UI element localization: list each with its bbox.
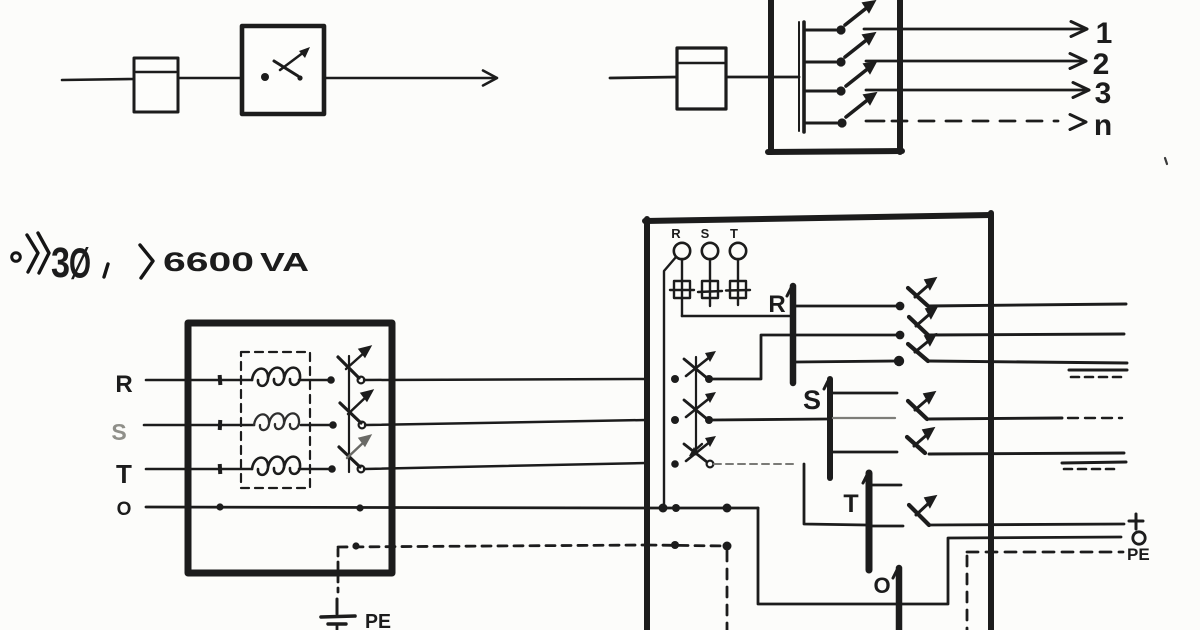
switch blade 2 — [845, 32, 877, 57]
wire O panel — [647, 504, 1121, 605]
distribution box — [768, 0, 902, 152]
wire S input — [144, 424, 188, 427]
wire feeder-2 input — [610, 77, 677, 78]
terminal R — [218, 375, 223, 385]
wire output 3 — [866, 83, 1089, 98]
lamp fuse S — [698, 281, 722, 306]
wire S2 out — [929, 453, 1124, 454]
svg-text:T: T — [116, 459, 132, 489]
branch stub n — [806, 118, 847, 127]
wire coil3 to contact — [299, 468, 330, 471]
svg-text:3: 3 — [1095, 77, 1112, 110]
terminal T — [218, 464, 223, 474]
switch R1 — [908, 277, 937, 306]
wire panel T to busbar — [804, 464, 866, 525]
wire panel S to busbar — [711, 419, 827, 420]
wire T1 out — [929, 524, 1124, 525]
svg-text:3: 3 — [51, 239, 70, 287]
wire PE dashed out — [967, 552, 1123, 630]
wire output 2 — [866, 54, 1086, 69]
svg-text:S: S — [803, 385, 821, 415]
svg-text:S: S — [701, 226, 710, 241]
branch stub 3 — [806, 86, 846, 95]
lamp labels R S T — [671, 226, 738, 241]
tap S faint — [833, 417, 895, 419]
wire coil2 to contact — [301, 424, 332, 427]
fuse F1 — [134, 58, 178, 112]
switch blade n — [846, 92, 878, 117]
wire panel T faint — [714, 463, 798, 465]
switch S1 — [908, 391, 936, 419]
lamp S — [702, 243, 718, 259]
wire F1 to switch S1 — [178, 77, 242, 80]
svg-text:1: 1 — [1096, 17, 1113, 50]
switch box S1 — [242, 26, 324, 114]
switch panel S — [671, 392, 716, 424]
wire F2 to distribution box — [726, 76, 799, 79]
svg-text:Ø: Ø — [69, 240, 91, 288]
scan speck — [1165, 158, 1167, 164]
regulator box — [188, 323, 392, 573]
switch R2 — [909, 306, 938, 335]
svg-text:T: T — [730, 226, 738, 241]
terminal S — [218, 420, 223, 430]
inductor L1 — [252, 368, 300, 386]
wire PE dashed vertical stub — [337, 549, 340, 592]
tap R3 — [796, 356, 904, 366]
svg-text:6600: 6600 — [163, 247, 254, 277]
switch T regulator — [328, 434, 372, 473]
switch S1 — [261, 47, 310, 81]
wire PE dashed to panel — [338, 545, 646, 547]
wire lamp common — [682, 315, 790, 318]
lamp fuse R — [670, 281, 694, 316]
wire T inside — [188, 468, 252, 471]
branch stub 2 — [806, 57, 846, 66]
wire R input — [146, 379, 188, 382]
wire feeder-1 output arrow — [324, 71, 497, 86]
busbar T — [863, 473, 869, 570]
svg-text:O: O — [873, 573, 890, 598]
lamp stems — [682, 259, 738, 281]
svg-text:R: R — [115, 371, 132, 398]
switch T1 — [909, 495, 937, 525]
wire S to panel — [365, 420, 646, 425]
busbar S — [824, 379, 830, 478]
wire T to panel — [364, 463, 646, 469]
wire R inside — [188, 379, 252, 382]
wire output n dashed — [866, 115, 1086, 130]
lamp T — [730, 243, 746, 259]
switch R3 — [908, 333, 937, 361]
branch stub 1 — [806, 25, 846, 34]
gang bar panel — [695, 357, 697, 452]
wire S1 out — [929, 418, 1122, 419]
svg-text:O: O — [117, 499, 132, 520]
tap S1 — [833, 392, 897, 395]
busbar R — [787, 286, 793, 383]
wire O input line — [146, 507, 646, 508]
fuse F2 — [677, 48, 726, 109]
wire lamp R to O — [664, 257, 676, 505]
annotation 3-phase 6600 VA — [12, 233, 310, 288]
wire R2 out — [928, 334, 1124, 335]
lamp fuse T — [726, 281, 750, 305]
continuation marks R — [1069, 370, 1127, 377]
switch S2 — [907, 427, 935, 453]
wire S inside — [188, 424, 254, 427]
continuation marks S — [1062, 462, 1126, 469]
tap R1 — [796, 302, 904, 311]
inductor L2 — [254, 413, 299, 430]
inductor L3 — [252, 457, 300, 475]
switch blade 1 — [845, 0, 877, 25]
svg-text:T: T — [843, 490, 858, 518]
tap T2 — [872, 525, 903, 528]
junction PE — [352, 542, 359, 549]
dot O mid — [356, 504, 363, 511]
svg-text:PE: PE — [1127, 545, 1150, 564]
wire R3 out — [928, 361, 1127, 363]
lamp R — [674, 243, 690, 259]
tap S2 — [833, 451, 897, 454]
label O out — [1133, 532, 1145, 544]
switch R regulator — [327, 345, 372, 384]
wire coil1 to contact — [299, 379, 329, 382]
switch blade 3 — [846, 61, 878, 86]
switch panel T — [671, 436, 716, 468]
busbar O — [893, 568, 899, 630]
wire R to panel — [364, 379, 646, 380]
svg-text:VA: VA — [260, 247, 309, 277]
wire output 1 — [864, 22, 1087, 37]
ground PE — [321, 599, 355, 630]
tap T1 — [872, 484, 901, 487]
gang bar — [348, 356, 350, 472]
svg-text:R: R — [671, 226, 681, 241]
wire PE dashed panel — [647, 541, 732, 630]
wire R1 out — [928, 304, 1126, 306]
busbar distribution — [799, 22, 804, 132]
svg-text:S: S — [111, 419, 126, 445]
wire panel R riser — [711, 335, 791, 379]
label plus — [1129, 514, 1143, 529]
svg-text:R: R — [768, 291, 785, 318]
svg-text:n: n — [1094, 109, 1112, 142]
dashed enclosure coils — [241, 352, 310, 488]
tap R2 — [796, 331, 904, 340]
wire feeder-1 input — [62, 79, 134, 80]
switch S regulator — [329, 389, 374, 429]
svg-text:PE: PE — [365, 611, 391, 630]
switch panel R — [671, 351, 716, 383]
terminal O — [216, 503, 223, 510]
panel box — [645, 213, 991, 630]
wire T input — [146, 468, 188, 471]
